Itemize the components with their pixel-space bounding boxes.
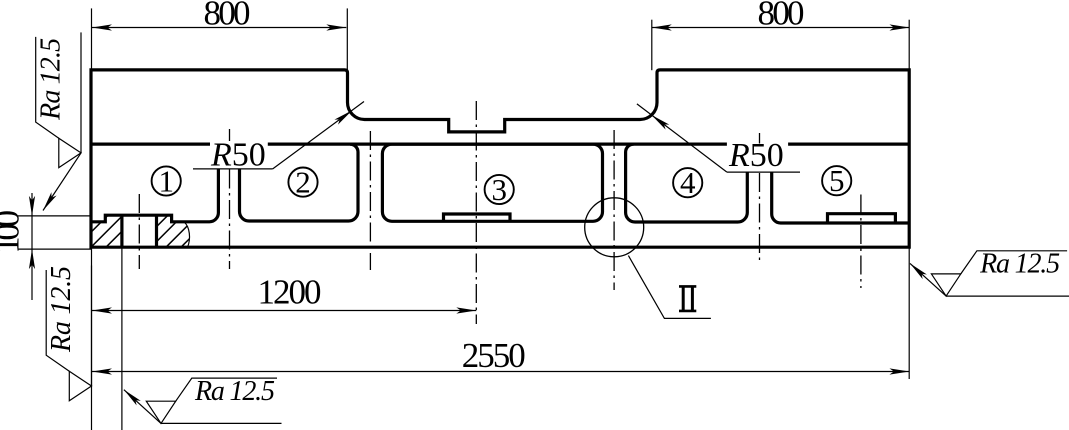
balloon 1 (152, 166, 181, 195)
web top line (middle segment) (268, 143, 727, 146)
svg-text:4: 4 (680, 165, 696, 200)
surface finish top-left leader (43, 153, 81, 211)
extension line left bottom (91, 247, 93, 430)
cavity 4 (626, 144, 748, 222)
centerline rib 1-2 (229, 129, 231, 141)
svg-text:800: 800 (758, 0, 805, 33)
svg-text:800: 800 (204, 0, 251, 33)
svg-text:Ra 12.5: Ra 12.5 (194, 376, 275, 407)
balloon 3 (485, 175, 514, 204)
svg-text:1: 1 (158, 164, 174, 199)
detail II label (679, 286, 696, 312)
surface finish symbol bottom-center (146, 376, 281, 424)
extension line right block left (651, 20, 653, 70)
centerline rib 2-3 (369, 131, 371, 270)
extension line left top (91, 8, 93, 70)
svg-text:5: 5 (829, 163, 845, 198)
extension line slot surface (121, 247, 123, 430)
svg-text:R50: R50 (210, 137, 266, 174)
cavity 3 floor pad (444, 214, 511, 221)
centerline bolt slot (138, 194, 140, 269)
centerline main (through notch) (475, 101, 477, 324)
cavity 5 floor pad (828, 214, 896, 223)
dimension 800 right line (652, 27, 910, 29)
extension line right bottom (908, 247, 910, 379)
R50 left leader (273, 102, 364, 169)
dimension 2550 line (92, 371, 909, 373)
detail circle II (585, 198, 644, 257)
extension line right top (908, 20, 910, 70)
detail II leader (628, 256, 711, 319)
extension line left block right (346, 8, 348, 70)
section break line (184, 222, 190, 247)
svg-text:3: 3 (491, 172, 507, 207)
svg-text:Ra 12.5: Ra 12.5 (46, 266, 77, 353)
svg-text:2550: 2550 (462, 336, 526, 375)
svg-text:Ra 12.5: Ra 12.5 (36, 38, 67, 121)
centerline rib 3-4 (613, 130, 615, 290)
R50 right leader (637, 104, 727, 172)
dimension 100 line (31, 193, 33, 300)
svg-text:2: 2 (295, 165, 311, 200)
svg-text:100: 100 (0, 210, 27, 254)
R50 right underline (727, 171, 800, 173)
bolt slot left edge (120, 215, 123, 247)
cavity 3 (382, 144, 602, 221)
balloon 2 (288, 168, 317, 197)
cavity 2 (240, 144, 359, 221)
surface finish symbol right (931, 249, 1069, 297)
surface finish bottom-center leader (124, 390, 161, 424)
centerline cavity5 pad (860, 195, 862, 289)
centerline rib 4-5 (759, 133, 761, 144)
foot step and cavity 1 floor profile (91, 169, 218, 222)
R50 left underline (193, 168, 273, 170)
surface finish symbol top-left (rotated) (36, 32, 82, 167)
surface finish right leader (910, 263, 946, 296)
dimension 800 left line (92, 27, 346, 29)
extension line foot top left (18, 215, 91, 217)
svg-text:Ra 12.5: Ra 12.5 (979, 249, 1060, 280)
bolt slot right edge (155, 215, 158, 247)
svg-text:1200: 1200 (258, 273, 322, 312)
svg-text:R50: R50 (728, 137, 784, 174)
dimension 1200 line (92, 310, 476, 312)
extension line bottom left (18, 248, 91, 250)
web top line (left segment) (91, 143, 210, 146)
web top line (right segment) (788, 143, 909, 146)
balloon 4 (673, 168, 702, 197)
cavity 5 left wall and floor (772, 172, 910, 223)
surface finish symbol bottom-left (rotated) (46, 266, 92, 401)
balloon 5 (822, 166, 851, 195)
part main outline (91, 70, 909, 247)
